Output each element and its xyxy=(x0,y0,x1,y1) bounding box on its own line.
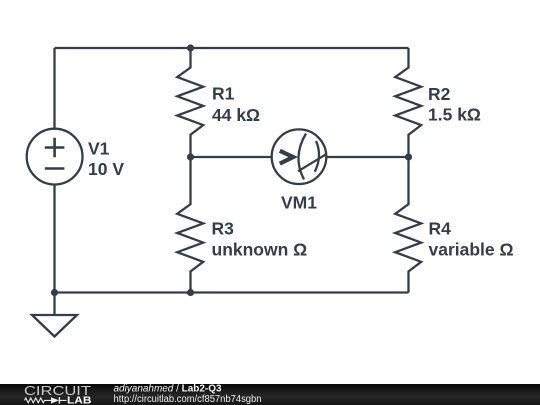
wire VM1 left xyxy=(191,156,273,158)
resistor R3 xyxy=(177,157,203,293)
wire V1 top lead xyxy=(53,48,55,129)
svg-text:R2: R2 xyxy=(428,84,451,104)
node bottom-mid junction xyxy=(187,289,194,296)
wire top rail xyxy=(55,47,409,49)
resistor R1 xyxy=(177,48,203,157)
footer bar xyxy=(0,384,540,405)
wire VM1 right xyxy=(326,156,408,158)
voltage source V1 xyxy=(27,129,83,185)
svg-text:VM1: VM1 xyxy=(281,193,317,213)
node top junction xyxy=(187,44,194,51)
ground xyxy=(32,293,77,337)
svg-text:1.5 kΩ: 1.5 kΩ xyxy=(428,105,481,125)
wire bottom rail xyxy=(55,291,409,293)
svg-text:44 kΩ: 44 kΩ xyxy=(212,105,260,125)
label R2 value xyxy=(428,84,481,125)
svg-text:variable Ω: variable Ω xyxy=(429,240,514,260)
node bottom-left junction xyxy=(51,289,58,296)
voltmeter VM1 xyxy=(272,129,327,184)
svg-text:R4: R4 xyxy=(429,219,452,239)
svg-text:10 V: 10 V xyxy=(88,159,124,179)
label R4 value xyxy=(429,219,514,260)
svg-text:http://circuitlab.com/cf857nb7: http://circuitlab.com/cf857nb74sgbn xyxy=(114,394,262,405)
svg-text:unknown Ω: unknown Ω xyxy=(212,240,308,260)
label R3 value xyxy=(212,219,308,260)
label V1 value xyxy=(88,138,124,179)
resistor R2 xyxy=(395,48,421,157)
svg-text:adiyanahmed / Lab2-Q3: adiyanahmed / Lab2-Q3 xyxy=(114,384,222,395)
wire V1 bottom lead xyxy=(53,185,55,293)
logo mini-circuit resistor and diode xyxy=(25,397,67,404)
node mid-right junction xyxy=(405,153,412,160)
svg-text:R1: R1 xyxy=(212,84,235,104)
node mid-left junction xyxy=(187,153,194,160)
svg-text:LAB: LAB xyxy=(67,395,92,405)
label R1 value xyxy=(212,84,260,126)
svg-text:V1: V1 xyxy=(88,138,110,158)
svg-text:R3: R3 xyxy=(212,219,235,239)
resistor R4 xyxy=(395,157,421,293)
